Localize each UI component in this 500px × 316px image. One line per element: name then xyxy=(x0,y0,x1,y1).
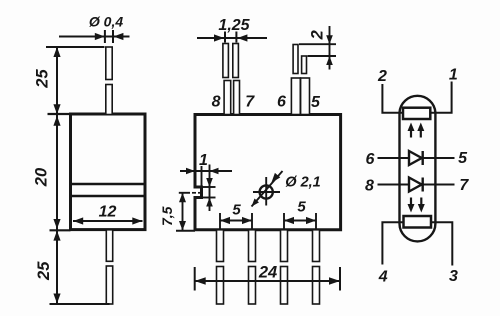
svg-text:1: 1 xyxy=(449,67,458,84)
svg-text:1,25: 1,25 xyxy=(218,17,250,34)
svg-text:Ø 0,4: Ø 0,4 xyxy=(89,14,123,30)
svg-text:2: 2 xyxy=(377,68,387,85)
svg-text:8: 8 xyxy=(212,93,221,110)
svg-text:20: 20 xyxy=(33,167,51,187)
svg-text:24: 24 xyxy=(258,264,277,282)
svg-text:5: 5 xyxy=(232,202,241,219)
svg-text:3: 3 xyxy=(449,268,458,285)
svg-text:5: 5 xyxy=(458,150,468,167)
svg-text:8: 8 xyxy=(365,178,374,195)
svg-text:5: 5 xyxy=(311,94,321,111)
svg-text:2: 2 xyxy=(308,30,326,40)
svg-text:4: 4 xyxy=(378,269,388,286)
svg-text:6: 6 xyxy=(366,151,375,168)
svg-text:Ø 2,1: Ø 2,1 xyxy=(285,175,320,191)
svg-text:7: 7 xyxy=(459,177,469,194)
svg-text:25: 25 xyxy=(35,261,53,281)
svg-text:1: 1 xyxy=(199,152,208,169)
svg-text:7: 7 xyxy=(245,93,255,110)
svg-text:12: 12 xyxy=(99,203,117,220)
svg-text:25: 25 xyxy=(33,69,51,89)
svg-text:5: 5 xyxy=(297,199,306,216)
svg-text:6: 6 xyxy=(277,94,286,111)
svg-text:7,5: 7,5 xyxy=(159,206,175,226)
